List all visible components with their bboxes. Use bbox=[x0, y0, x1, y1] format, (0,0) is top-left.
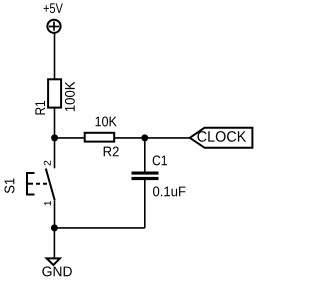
R2 label bbox=[104, 147, 119, 157]
C1 value 0.1uF bbox=[153, 186, 185, 196]
wire node A to R2 bbox=[55, 137, 85, 139]
R2 value 10K bbox=[96, 117, 117, 127]
wire node A to switch pin 2 bbox=[54, 138, 56, 168]
wire node B to C1 bbox=[144, 138, 146, 172]
ground symbol bbox=[47, 258, 60, 265]
wire node B to CLOCK tag bbox=[145, 137, 190, 139]
junction node B bbox=[141, 134, 148, 141]
junction node C bbox=[51, 224, 58, 231]
S1 label bbox=[5, 178, 15, 193]
resistor R1 bbox=[48, 79, 61, 107]
resistor R2 bbox=[85, 133, 115, 142]
wire supply to R1 bbox=[54, 33, 56, 79]
R1 label bbox=[35, 101, 45, 114]
wire R2 to node B bbox=[114, 137, 145, 139]
pin number 2 bbox=[44, 161, 51, 166]
R1 value 100K bbox=[65, 82, 75, 112]
C1 label bbox=[153, 155, 167, 165]
junction node A bbox=[51, 134, 58, 141]
switch S1 actuator stub bbox=[27, 183, 33, 185]
net tag CLOCK bbox=[190, 128, 253, 148]
capacitor C1 plate top bbox=[132, 172, 159, 175]
capacitor C1 plate bottom bbox=[132, 177, 159, 180]
bottom rail wire bbox=[54, 227, 144, 229]
switch S1 lever bbox=[46, 169, 55, 201]
CLOCK net label bbox=[197, 131, 246, 142]
switch S1 actuator dashed link bbox=[36, 183, 47, 185]
pin number 1 bbox=[44, 201, 51, 205]
wire switch pin 1 to node C bbox=[54, 201, 56, 228]
+5V supply symbol bbox=[47, 20, 60, 33]
wire C1 to bottom rail bbox=[144, 180, 146, 228]
GND label bbox=[42, 266, 71, 276]
wire node C to GND bbox=[53, 228, 55, 258]
wire R1 to node A bbox=[54, 108, 56, 138]
+5V label bbox=[44, 3, 63, 13]
switch S1 actuator bracket bbox=[27, 173, 35, 195]
